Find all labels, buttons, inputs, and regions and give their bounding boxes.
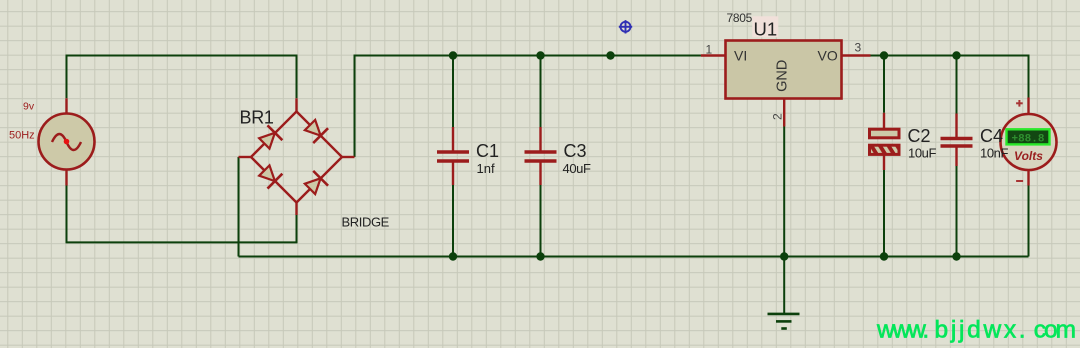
svg-text:www.bjjdwx.com: www.bjjdwx.com <box>876 317 1075 344</box>
capacitor C2 negative plate <box>870 145 900 154</box>
svg-text:C2: C2 <box>908 126 931 146</box>
svg-text:3: 3 <box>855 41 862 55</box>
svg-text:40uF: 40uF <box>563 161 591 176</box>
capacitor C1 lead bottom <box>452 163 454 186</box>
capacitor C1 plates <box>437 150 469 154</box>
svg-text:BRIDGE: BRIDGE <box>342 214 390 229</box>
wire: regulator output rail <box>871 56 1029 98</box>
svg-text:VO: VO <box>818 48 838 64</box>
ground symbol <box>768 314 800 329</box>
wire: source top to bridge top (top-left rail) <box>67 56 297 99</box>
bridge right pin stub <box>342 156 355 158</box>
wire: source return bottom-left rail <box>67 186 297 243</box>
svg-text:C1: C1 <box>476 141 499 161</box>
AC source V1 lead top <box>65 98 67 113</box>
voltmeter lead top <box>1027 98 1029 115</box>
wire: C1 bottom branch <box>452 185 454 257</box>
regulator U1 pin 2 stub <box>783 99 785 127</box>
svg-text:1nf: 1nf <box>477 161 495 176</box>
svg-text:GND: GND <box>774 60 790 92</box>
svg-text:50Hz: 50Hz <box>9 129 35 141</box>
junction C4 bottom <box>952 252 960 260</box>
wire: C2 bottom branch <box>883 170 885 257</box>
AC source V1 lead bottom <box>65 170 67 186</box>
junction node VI rail <box>606 51 614 59</box>
svg-text:1: 1 <box>706 43 713 57</box>
junction C2 top <box>880 51 888 59</box>
wire: bottom ground rail <box>239 256 1029 258</box>
svg-text:Volts: Volts <box>1014 149 1043 163</box>
bridge bottom pin stub <box>295 203 297 216</box>
AC source sine symbol <box>52 134 81 150</box>
svg-text:VI: VI <box>734 48 747 64</box>
wire: C4 bottom branch <box>956 166 958 257</box>
svg-text:10nF: 10nF <box>980 146 1008 161</box>
diode D4 lower-right <box>303 171 328 196</box>
junction C3 bottom <box>536 252 544 260</box>
regulator U1 body <box>726 41 842 99</box>
svg-text:U1: U1 <box>754 18 778 39</box>
voltmeter minus terminal label <box>1016 180 1023 182</box>
AC source origin dot <box>64 139 70 145</box>
diode D1 upper-left <box>257 125 282 150</box>
voltmeter body <box>1001 114 1057 170</box>
capacitor C2 lead top <box>883 113 885 129</box>
bridge BR1 frame <box>251 112 342 203</box>
diode D3 lower-left <box>257 163 282 188</box>
wire: C3 bottom branch <box>540 185 542 257</box>
svg-text:C3: C3 <box>564 141 587 161</box>
svg-text:+88.8: +88.8 <box>1011 134 1044 146</box>
svg-text:7805: 7805 <box>727 11 753 25</box>
junction C1 bottom <box>449 252 457 260</box>
capacitor C3 plates <box>525 150 557 154</box>
junction C2 bottom <box>880 252 888 260</box>
wire: C1 top branch <box>452 56 454 128</box>
junction ground node <box>780 252 788 260</box>
wire: bridge left vertex down to ground rail <box>238 157 240 257</box>
svg-text:9v: 9v <box>23 100 35 112</box>
junction C1 top <box>449 51 457 59</box>
bridge top pin stub <box>295 98 297 111</box>
wire: C2 top branch <box>883 56 885 113</box>
regulator U1 pin 3 stub <box>842 54 871 56</box>
voltmeter lead bottom <box>1027 170 1029 186</box>
capacitor C4 plates <box>941 137 973 141</box>
capacitor C2 lead bottom <box>883 155 885 170</box>
regulator U1 pin 1 stub <box>701 54 726 56</box>
junction C3 top <box>536 51 544 59</box>
diode D2 upper-right <box>303 118 328 143</box>
capacitor C2 positive plate <box>870 129 900 138</box>
svg-text:BR1: BR1 <box>240 108 274 128</box>
capacitor C3 lead top <box>539 127 541 151</box>
wire: regulator pin2 down to ground symbol <box>783 127 785 314</box>
svg-text:2: 2 <box>770 113 784 120</box>
wire: C3 top branch <box>540 56 542 128</box>
voltmeter plus terminal label <box>1016 100 1023 107</box>
label U1 highlight <box>752 16 778 37</box>
capacitor C1 lead top <box>452 127 454 151</box>
svg-text:C4: C4 <box>980 126 1003 146</box>
capacitor C4 lead top <box>955 114 957 138</box>
bridge left pin stub <box>239 156 252 158</box>
AC source V1 body <box>39 114 95 170</box>
svg-text:10uF: 10uF <box>908 146 936 161</box>
wire: voltmeter bottom branch <box>1028 186 1030 257</box>
origin marker <box>619 20 632 33</box>
capacitor C4 lead bottom <box>955 147 957 166</box>
capacitor C3 lead bottom <box>539 163 541 186</box>
junction C4 top <box>952 51 960 59</box>
voltmeter LCD display <box>1007 129 1050 144</box>
wire: C4 top branch <box>956 56 958 114</box>
wire: bridge right vertex up and right to regulator <box>355 56 701 158</box>
